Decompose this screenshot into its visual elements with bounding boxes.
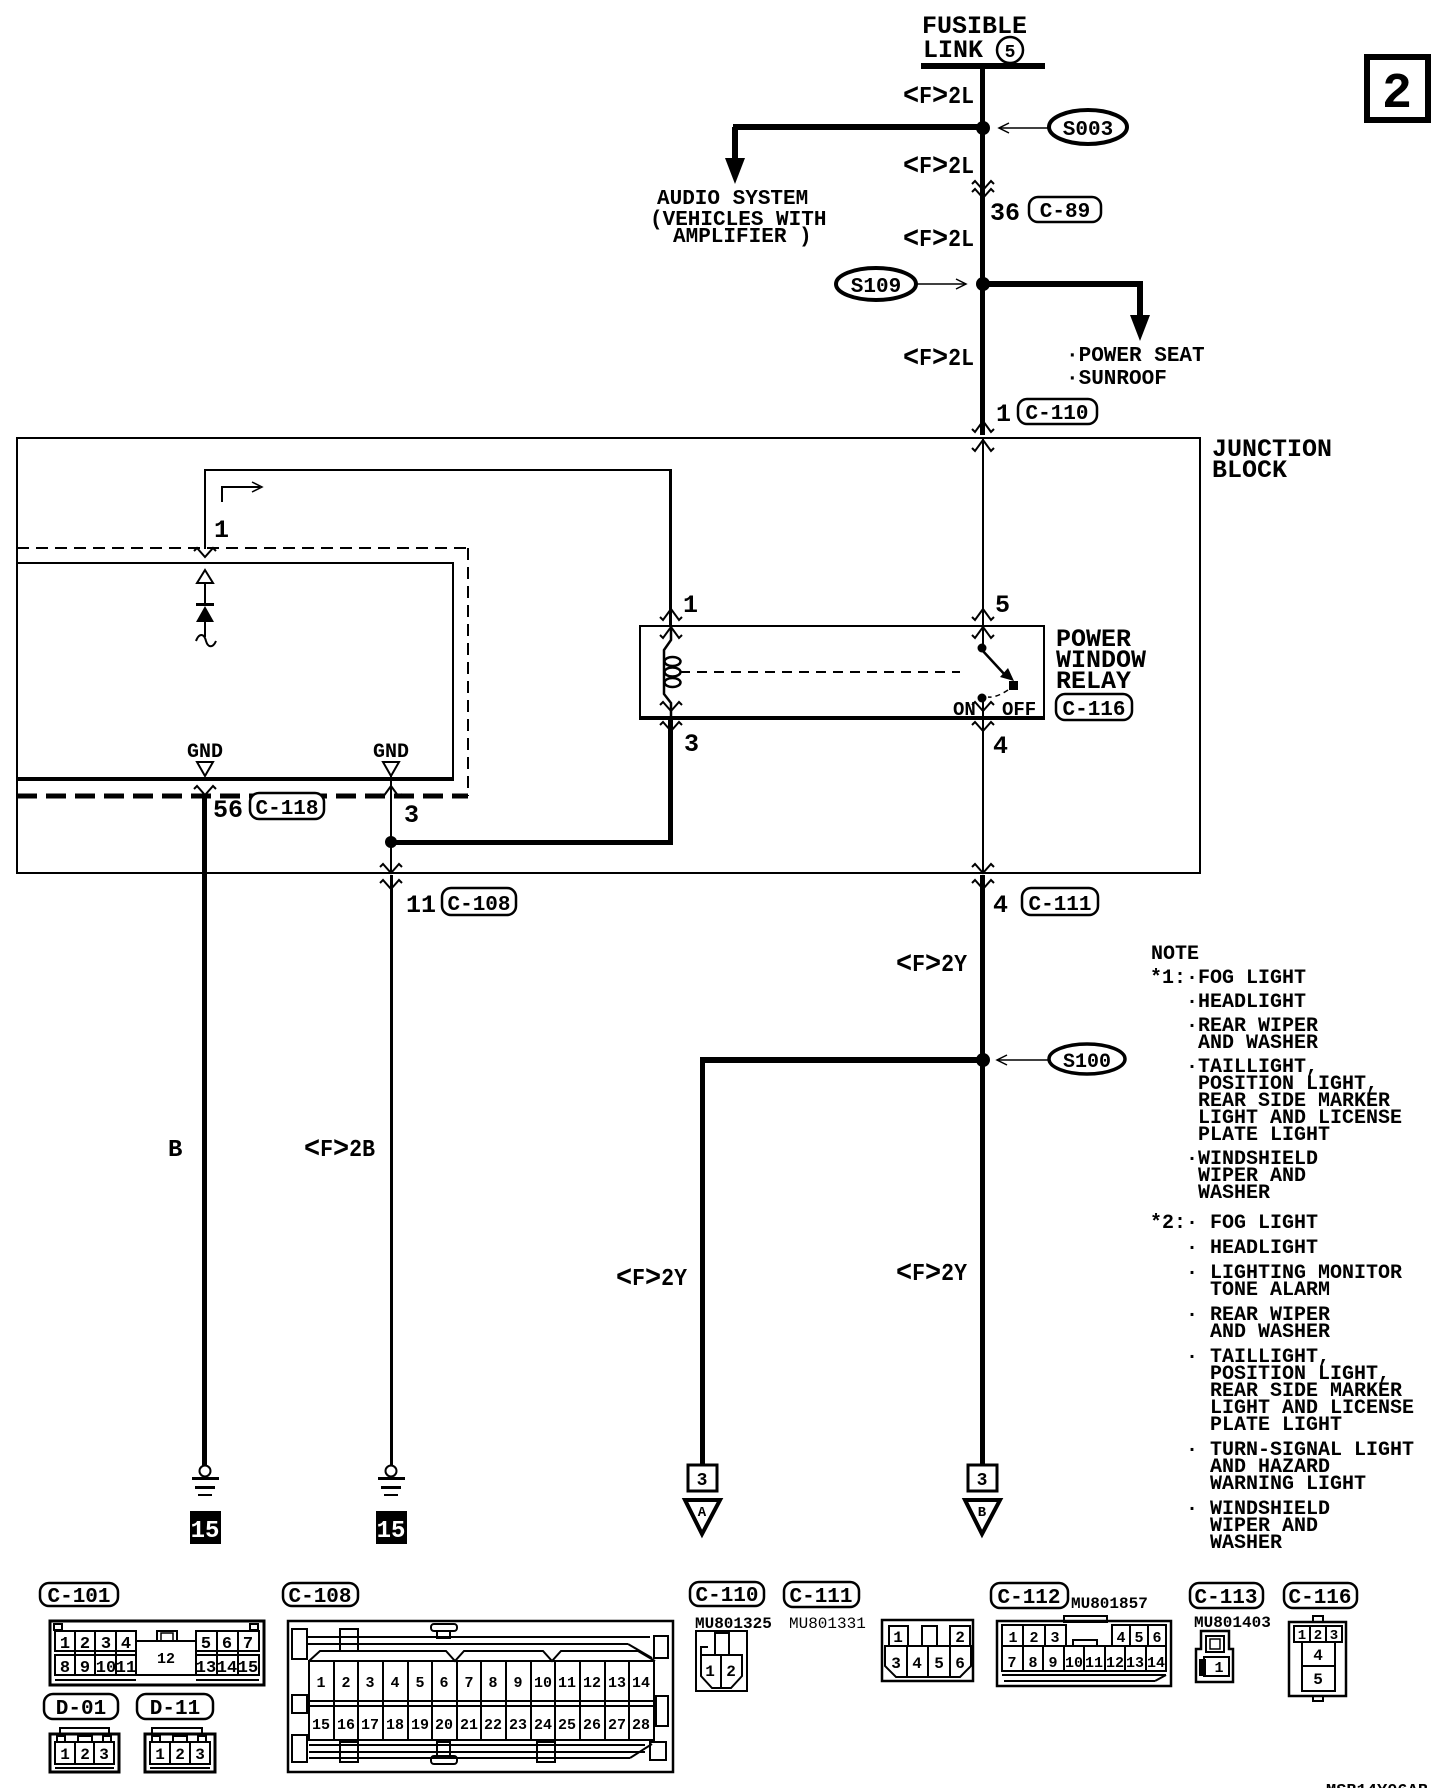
arrowhead to power seat [1130, 315, 1150, 341]
svg-text:9: 9 [1048, 1655, 1057, 1672]
connector crossing 36 C-89 chevrons [972, 181, 994, 198]
svg-text:14: 14 [217, 1659, 237, 1678]
svg-text:C-118: C-118 [255, 798, 318, 821]
connector label C-108 bottom [283, 1583, 358, 1609]
inner box right border [452, 562, 454, 779]
connector crossing C-110 chevrons [972, 421, 994, 451]
svg-text:PLATE LIGHT: PLATE LIGHT [1210, 1414, 1342, 1437]
svg-text:MSB14Y06AB: MSB14Y06AB [1326, 1782, 1428, 1788]
connector label C-118 [250, 793, 324, 821]
ground G2 [378, 1466, 405, 1497]
relay internal dashed link [680, 671, 960, 673]
svg-text:MU801331: MU801331 [789, 1615, 866, 1633]
connector label D-01 [44, 1694, 118, 1721]
splice S003 [1049, 110, 1127, 144]
svg-text:<F>2L: <F>2L [903, 342, 974, 376]
svg-text:3: 3 [365, 1675, 374, 1692]
svg-text:*2:· FOG LIGHT: *2:· FOG LIGHT [1150, 1212, 1318, 1235]
svg-text:11: 11 [1085, 1655, 1103, 1672]
svg-text:MU801403: MU801403 [1194, 1614, 1271, 1632]
svg-text:2: 2 [1029, 1630, 1038, 1647]
connector D-01 drawing [50, 1728, 119, 1772]
chevrons relay pin 3 [660, 702, 682, 731]
ground code box 15 left [190, 1511, 221, 1545]
svg-text:1: 1 [214, 516, 229, 545]
svg-text:23: 23 [509, 1717, 527, 1734]
page number box 2 [1367, 57, 1428, 123]
svg-text:1: 1 [316, 1675, 325, 1692]
svg-text:5: 5 [415, 1675, 424, 1692]
relay switch SW [978, 627, 1019, 719]
chevrons bottom crossing x983 [972, 864, 994, 889]
wire main feed (F)2L vertical [980, 69, 985, 435]
goto arrow symbol [222, 482, 262, 502]
note item 2 turn signal [1186, 1439, 1414, 1496]
relay box outline [640, 626, 1044, 720]
diode D1 [196, 570, 216, 646]
svg-text:36: 36 [990, 199, 1020, 228]
svg-text:C-108: C-108 [447, 894, 510, 917]
svg-text:C-101: C-101 [47, 1586, 110, 1609]
svg-text:11: 11 [558, 1675, 576, 1692]
svg-text:4: 4 [390, 1675, 399, 1692]
note item 1 rear wiper [1186, 1015, 1318, 1055]
svg-text:B: B [168, 1137, 182, 1164]
svg-text:15: 15 [191, 1518, 220, 1545]
svg-text:4: 4 [993, 732, 1008, 761]
svg-text:10: 10 [96, 1659, 116, 1678]
note item 2 lighting monitor [1186, 1262, 1402, 1302]
svg-text:13: 13 [196, 1659, 216, 1678]
svg-text:21: 21 [460, 1717, 478, 1734]
junction block outline [17, 438, 1200, 873]
ground code box 15 right [376, 1511, 407, 1545]
inner box bottom border [17, 777, 454, 781]
chevron up pin 3 C-108 [380, 786, 402, 797]
svg-text:1: 1 [1008, 1630, 1017, 1647]
wire 2B vertical [390, 875, 393, 1466]
svg-text:WASHER: WASHER [1210, 1532, 1282, 1555]
note item 2 rear wiper [1186, 1304, 1330, 1344]
svg-text:6: 6 [1152, 1630, 1161, 1647]
svg-text:12: 12 [157, 1651, 175, 1668]
svg-text:B: B [978, 1505, 987, 1521]
svg-text:5: 5 [934, 1655, 944, 1673]
svg-text:6: 6 [439, 1675, 448, 1692]
connector C-113 drawing [1196, 1631, 1233, 1682]
svg-text:1: 1 [60, 1635, 70, 1654]
svg-text:19: 19 [411, 1717, 429, 1734]
svg-text:1: 1 [683, 591, 698, 620]
svg-text:7: 7 [1007, 1655, 1016, 1672]
chevrons relay pin 5 [972, 609, 994, 638]
svg-text:3: 3 [1050, 1630, 1059, 1647]
svg-text:5: 5 [201, 1635, 211, 1654]
wire loop top path [204, 469, 672, 626]
svg-text:1: 1 [155, 1746, 165, 1764]
svg-text:11: 11 [406, 891, 436, 920]
note item 2 windshield [1186, 1498, 1330, 1555]
connector label C-116 relay [1056, 694, 1132, 722]
svg-text:2: 2 [726, 1663, 736, 1681]
svg-text:· HEADLIGHT: · HEADLIGHT [1186, 1237, 1318, 1260]
svg-text:14: 14 [632, 1675, 650, 1692]
svg-text:15: 15 [377, 1518, 406, 1545]
dashed box bottom border [17, 794, 468, 799]
label audio system [650, 188, 826, 249]
svg-text:10: 10 [534, 1675, 552, 1692]
svg-text:1: 1 [1298, 1628, 1306, 1644]
svg-text:S109: S109 [851, 276, 901, 299]
svg-text:·POWER SEAT: ·POWER SEAT [1066, 345, 1205, 368]
svg-text:5: 5 [1134, 1630, 1143, 1647]
wire gnd right thin lower [390, 845, 392, 873]
svg-text:<F>2B: <F>2B [304, 1133, 375, 1167]
wire thin feed inside junction block [982, 438, 984, 626]
svg-text:4: 4 [993, 891, 1008, 920]
svg-text:5: 5 [995, 591, 1010, 620]
svg-text:AND WASHER: AND WASHER [1198, 1032, 1318, 1055]
svg-text:2: 2 [955, 1629, 965, 1647]
label power seat sunroof [1066, 345, 1205, 391]
connector C-112 drawing [997, 1616, 1171, 1686]
wire relay pin4 down thin [982, 720, 984, 873]
arrow S100 pointer [997, 1055, 1049, 1065]
svg-text:<F>2L: <F>2L [903, 150, 974, 184]
label junction block [1212, 435, 1332, 485]
svg-text:<F>2Y: <F>2Y [896, 948, 968, 982]
svg-text:7: 7 [243, 1635, 253, 1654]
svg-text:AMPLIFIER ): AMPLIFIER ) [673, 226, 812, 249]
chevron at dashed bottom crossing x205 [194, 786, 216, 795]
svg-text:9: 9 [513, 1675, 522, 1692]
svg-text:NOTE: NOTE [1151, 943, 1199, 966]
chevrons relay pin 1 [660, 609, 682, 638]
connector D-11 drawing [145, 1728, 215, 1772]
svg-text:9: 9 [80, 1659, 90, 1678]
svg-text:4: 4 [1116, 1630, 1125, 1647]
connector label C-110 top [1018, 399, 1097, 426]
svg-text:OFF: OFF [1002, 699, 1036, 721]
node S109 junction dot [976, 277, 990, 291]
svg-text:S100: S100 [1063, 1051, 1111, 1074]
connector label D-11 [137, 1694, 213, 1721]
connector label C-111 mid [1022, 888, 1098, 917]
splice S109 [836, 268, 916, 300]
svg-text:4: 4 [1313, 1647, 1323, 1665]
svg-text:·SUNROOF: ·SUNROOF [1066, 368, 1167, 391]
wire power seat drop [1137, 284, 1143, 317]
connector label C-110 bottom [690, 1582, 764, 1608]
svg-text:C-116: C-116 [1288, 1587, 1351, 1610]
connector label C-112 bottom [991, 1583, 1068, 1610]
connector C-108 drawing [288, 1621, 673, 1772]
svg-text:5: 5 [1005, 43, 1016, 63]
svg-text:MU801857: MU801857 [1071, 1595, 1148, 1613]
svg-text:3: 3 [1330, 1628, 1338, 1644]
svg-text:TONE ALARM: TONE ALARM [1210, 1279, 1330, 1302]
svg-text:1: 1 [705, 1663, 715, 1681]
svg-text:25: 25 [558, 1717, 576, 1734]
node junction dot x391 [385, 836, 397, 848]
svg-text:17: 17 [361, 1717, 379, 1734]
svg-text:LINK: LINK [923, 36, 983, 65]
svg-text:S003: S003 [1063, 119, 1113, 142]
svg-text:14: 14 [1147, 1655, 1165, 1672]
svg-text:C-110: C-110 [1025, 403, 1088, 426]
splice S100 [1049, 1044, 1125, 1074]
svg-text:WARNING LIGHT: WARNING LIGHT [1210, 1473, 1366, 1496]
svg-text:2: 2 [1382, 66, 1412, 123]
svg-text:24: 24 [534, 1717, 552, 1734]
svg-text:26: 26 [583, 1717, 601, 1734]
label GND left [187, 741, 223, 776]
svg-text:3: 3 [99, 1746, 109, 1764]
wire branch to power seat [983, 281, 1143, 287]
arrowhead to audio system [725, 158, 745, 184]
svg-text:4: 4 [121, 1635, 131, 1654]
svg-text:3: 3 [404, 801, 419, 830]
svg-text:C-112: C-112 [997, 1587, 1060, 1610]
wire 2Y main vertical [980, 875, 985, 1465]
connector label C-116 bottom [1284, 1583, 1357, 1610]
svg-text:<F>2L: <F>2L [903, 80, 974, 114]
relay coil L1 [664, 626, 681, 719]
svg-text:C-111: C-111 [1028, 894, 1091, 917]
wire ground left thick [202, 796, 207, 1466]
wire branch to audio system [733, 124, 983, 130]
svg-text:1: 1 [60, 1746, 70, 1764]
svg-text:8: 8 [1028, 1655, 1037, 1672]
svg-text:8: 8 [488, 1675, 497, 1692]
wire relay pin3 vertical [668, 720, 673, 842]
connector C-116 drawing [1289, 1616, 1346, 1701]
svg-text:C-89: C-89 [1040, 201, 1090, 224]
svg-text:3: 3 [684, 730, 699, 759]
svg-text:18: 18 [386, 1717, 404, 1734]
svg-text:D-01: D-01 [56, 1698, 106, 1721]
terminal box 3 A [688, 1465, 717, 1491]
connector label C-89 [1029, 197, 1101, 224]
connector C-110 drawing [696, 1631, 747, 1691]
svg-text:<F>2L: <F>2L [903, 223, 974, 257]
wire branch left 2Y horizontal [700, 1057, 983, 1063]
note item 2 taillight [1186, 1346, 1414, 1437]
svg-text:5: 5 [1313, 1671, 1323, 1689]
svg-text:8: 8 [60, 1659, 70, 1678]
svg-text:<F>2Y: <F>2Y [896, 1257, 968, 1291]
svg-text:15: 15 [238, 1659, 258, 1678]
connector C-111 drawing [882, 1620, 973, 1681]
svg-text:20: 20 [435, 1717, 453, 1734]
chevron at dashed crossing x205 [194, 548, 216, 557]
svg-text:2: 2 [80, 1746, 90, 1764]
chevrons relay pin 4 [972, 702, 994, 731]
svg-text:2: 2 [1314, 1628, 1322, 1644]
fusible link label [922, 12, 1027, 65]
wire branch left 2Y vertical [700, 1057, 705, 1465]
svg-text:BLOCK: BLOCK [1212, 456, 1287, 485]
svg-text:GND: GND [187, 741, 223, 764]
svg-text:C-116: C-116 [1062, 699, 1125, 722]
svg-text:A: A [698, 1505, 707, 1521]
inner box top border [17, 562, 454, 564]
arrow S003 pointer [999, 123, 1048, 133]
svg-text:13: 13 [608, 1675, 626, 1692]
svg-text:GND: GND [373, 741, 409, 764]
svg-text:1: 1 [893, 1629, 903, 1647]
goto triangle A [685, 1500, 720, 1534]
svg-text:D-11: D-11 [150, 1698, 200, 1721]
svg-text:11: 11 [116, 1659, 136, 1678]
svg-text:C-113: C-113 [1194, 1587, 1257, 1610]
svg-text:27: 27 [608, 1717, 626, 1734]
svg-text:C-111: C-111 [789, 1586, 852, 1609]
ground G1 [192, 1466, 219, 1497]
svg-text:4: 4 [912, 1655, 922, 1673]
goto triangle B [965, 1500, 1000, 1534]
wire relay pin3 horizontal [391, 840, 673, 845]
connector label C-113 bottom [1190, 1583, 1263, 1610]
svg-text:10: 10 [1065, 1655, 1083, 1672]
label power window relay [1056, 625, 1146, 696]
dashed box right border [467, 548, 469, 796]
svg-text:<F>2Y: <F>2Y [616, 1262, 688, 1296]
wire audio drop [732, 127, 738, 161]
svg-text:1: 1 [1214, 1660, 1223, 1677]
svg-text:C-108: C-108 [288, 1586, 351, 1609]
svg-text:3: 3 [977, 1471, 988, 1491]
svg-text:3: 3 [891, 1655, 901, 1673]
svg-text:3: 3 [195, 1746, 205, 1764]
svg-text:1: 1 [996, 400, 1011, 429]
label GND right [373, 741, 409, 776]
connector label C-111 bottom [784, 1582, 859, 1609]
chevrons bottom crossing x391 [380, 864, 402, 889]
svg-text:7: 7 [464, 1675, 473, 1692]
svg-text:*1:·FOG LIGHT: *1:·FOG LIGHT [1150, 967, 1306, 990]
connector label C-101 bottom [40, 1583, 118, 1609]
dashed box top border [17, 547, 468, 549]
wire gnd right thin upper [390, 776, 392, 843]
connector label C-108 mid [442, 888, 516, 917]
svg-text:WASHER: WASHER [1198, 1182, 1270, 1205]
svg-text:ON: ON [953, 699, 976, 721]
svg-text:28: 28 [632, 1717, 650, 1734]
arrow S109 pointer [916, 279, 966, 289]
svg-text:12: 12 [1106, 1655, 1124, 1672]
node S100 junction dot [976, 1053, 990, 1067]
svg-text:13: 13 [1126, 1655, 1144, 1672]
svg-text:RELAY: RELAY [1056, 667, 1131, 696]
svg-text:PLATE LIGHT: PLATE LIGHT [1198, 1124, 1330, 1147]
svg-text:·HEADLIGHT: ·HEADLIGHT [1186, 991, 1306, 1014]
svg-text:56: 56 [213, 796, 243, 825]
svg-text:6: 6 [955, 1655, 965, 1673]
svg-text:15: 15 [312, 1717, 330, 1734]
svg-text:3: 3 [697, 1471, 708, 1491]
svg-text:16: 16 [337, 1717, 355, 1734]
svg-text:2: 2 [80, 1635, 90, 1654]
svg-text:AND WASHER: AND WASHER [1210, 1321, 1330, 1344]
svg-text:C-110: C-110 [695, 1585, 758, 1608]
svg-text:2: 2 [341, 1675, 350, 1692]
fusible link bus bar [921, 63, 1045, 69]
terminal box 3 B [968, 1465, 997, 1491]
svg-text:3: 3 [101, 1635, 111, 1654]
node S003 junction dot [976, 121, 990, 135]
note item 1 windshield [1186, 1148, 1318, 1205]
svg-text:22: 22 [484, 1717, 502, 1734]
svg-text:6: 6 [222, 1635, 232, 1654]
svg-text:2: 2 [175, 1746, 185, 1764]
svg-text:AUDIO SYSTEM: AUDIO SYSTEM [657, 188, 808, 211]
svg-text:12: 12 [583, 1675, 601, 1692]
connector C-101 drawing [50, 1621, 264, 1685]
note item 1 taillight [1186, 1056, 1402, 1147]
